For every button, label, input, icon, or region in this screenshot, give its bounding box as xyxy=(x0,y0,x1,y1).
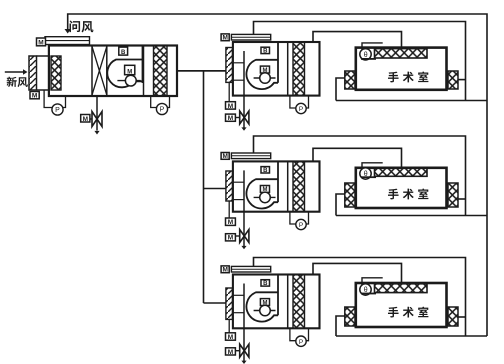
wire: under-room return duct (room 1) xyxy=(336,100,487,102)
wire: primary air into branch 1 xyxy=(177,70,226,72)
return grille right (room 2) xyxy=(448,183,458,207)
return damper strip (branch 2) xyxy=(231,153,270,159)
svg-text:M: M xyxy=(228,235,233,242)
fan control box B xyxy=(261,280,270,286)
dP gauge P (left filter) xyxy=(44,90,65,115)
svg-text:B: B xyxy=(263,281,268,287)
fan section wall xyxy=(277,275,279,316)
valve actuator M (branch 1) xyxy=(226,114,236,121)
wire: primary air into branch 2 xyxy=(204,188,226,190)
valve actuator M (branch 2) xyxy=(226,234,236,241)
humidifier valve (branch 3) xyxy=(240,344,249,357)
humidifier pipe (branch 2) xyxy=(243,170,245,246)
return grille right (room 3) xyxy=(448,307,458,326)
wire: supply duct branch 2 to room 2 xyxy=(313,148,402,168)
fan motor circle xyxy=(260,192,271,203)
fan motor circle xyxy=(260,73,271,84)
fan volute xyxy=(107,60,142,88)
svg-text:M: M xyxy=(222,267,227,274)
wire: under-room return duct (room 3) xyxy=(336,335,487,337)
svg-text:M: M xyxy=(222,35,227,42)
dP gauge P (right filter) xyxy=(151,96,170,115)
mixing damper (branch 3 left) xyxy=(226,288,233,319)
main AHU casing xyxy=(49,46,177,97)
wire: supply duct branch 1 to room 1 xyxy=(313,32,402,49)
humidifier pipe (branch 1) xyxy=(243,51,245,128)
wire: right grille connector (room 1) xyxy=(458,79,466,81)
wire: left return duct (room 3) xyxy=(336,316,345,336)
humidifier feed pipe xyxy=(96,96,98,131)
wire: main supply duct to branches xyxy=(177,70,226,72)
return grille right (room 1) xyxy=(448,71,458,89)
branch AHU 2 casing xyxy=(233,161,320,211)
svg-text:M: M xyxy=(228,349,233,356)
fan motor symbol xyxy=(254,310,276,312)
valve actuator M (main) xyxy=(81,115,90,123)
fan volute xyxy=(246,179,278,208)
fan motor symbol xyxy=(254,77,276,79)
svg-text:P: P xyxy=(299,339,303,346)
valve actuator M (branch 3) xyxy=(226,348,236,355)
svg-text:M: M xyxy=(228,219,233,226)
dP gauge P (branch 1) xyxy=(290,96,309,114)
return damper strip on top of main AHU xyxy=(45,37,90,45)
humidifier valve (branch 1) xyxy=(240,111,249,124)
svg-text:M: M xyxy=(222,153,227,160)
fresh air arrow xyxy=(5,71,25,73)
wire: right grille connector (room 2) xyxy=(458,198,466,200)
HEPA filter (branch 2) xyxy=(293,161,305,211)
sensor probe (room 1) xyxy=(360,43,383,60)
prefilter (main AHU left) xyxy=(51,56,61,90)
fan volute xyxy=(246,292,278,321)
fan section wall xyxy=(143,46,145,97)
svg-text:B: B xyxy=(263,48,268,54)
fan section wall xyxy=(142,46,144,84)
wire: recirculation duct room 3 to branch AHU 3 xyxy=(254,258,466,337)
partition before filter (branch 2) xyxy=(287,161,289,211)
label 手术室 (operating room 1) xyxy=(388,71,428,82)
wire: right grille connector (room 3) xyxy=(458,316,466,318)
fresh air damper xyxy=(29,56,37,90)
wire: recirculation duct room 1 to branch AHU 1 xyxy=(254,22,466,101)
fan motor box M xyxy=(125,65,135,74)
damper actuator M (branch 2 strip) xyxy=(221,153,229,160)
return damper strip (branch 3) xyxy=(231,266,270,272)
wire: left return duct (room 1) xyxy=(336,78,345,101)
sensor probe (room 3) xyxy=(360,278,383,295)
damper actuator M (return strip) xyxy=(37,38,46,46)
return grille left (room 2) xyxy=(345,183,355,207)
mixing damper (branch 2 left) xyxy=(226,171,233,201)
humidifier pipe (branch 3) xyxy=(243,284,245,362)
fan motor box M xyxy=(260,66,269,73)
ceiling HEPA diffuser (room 2) xyxy=(375,168,428,177)
heating/humidifier section X xyxy=(92,46,107,97)
svg-text:P: P xyxy=(160,107,165,114)
fan control box B xyxy=(261,167,270,173)
svg-text:M: M xyxy=(32,93,37,100)
label 手术室 (operating room 2) xyxy=(388,188,428,199)
operating room 2 xyxy=(356,168,447,208)
branch AHU 3 casing xyxy=(233,275,320,329)
damper actuator M (branch 3) xyxy=(226,333,236,340)
return air arrow into AHU xyxy=(65,29,71,34)
fan motor symbol xyxy=(254,196,276,198)
wire: main return duct top xyxy=(68,14,487,336)
wire: recirculation duct room 2 to branch AHU 2 xyxy=(254,136,466,216)
return grille left (room 1) xyxy=(345,71,355,89)
final filter (main AHU right) xyxy=(154,46,168,97)
fan section wall xyxy=(277,161,279,202)
dP gauge P (branch 2) xyxy=(290,212,309,230)
mixing damper (branch 1 left) xyxy=(226,48,233,83)
fan motor symbol xyxy=(117,80,140,82)
fan section wall xyxy=(277,42,279,83)
label 手术室 (operating room 3) xyxy=(388,307,428,318)
label 新风 (fresh air) xyxy=(7,77,28,87)
damper actuator M (branch 1 strip) xyxy=(221,34,229,41)
fan motor box M xyxy=(260,299,269,306)
label 回风 (return air) xyxy=(70,21,94,33)
svg-text:M: M xyxy=(38,40,43,47)
svg-text:M: M xyxy=(228,103,233,110)
fan volute xyxy=(246,60,278,89)
fan control box B xyxy=(261,47,270,53)
damper actuator M (fresh air) xyxy=(30,92,39,99)
svg-text:P: P xyxy=(299,106,303,113)
wire: primary air into branch 3 xyxy=(204,302,226,304)
svg-text:P: P xyxy=(55,107,60,114)
humidifier valve (branch 2) xyxy=(240,230,249,243)
fan motor box M xyxy=(260,186,269,193)
wire: supply duct branch 3 to room 3 xyxy=(313,263,402,283)
damper actuator M (branch 2) xyxy=(226,218,236,225)
partition before filter (branch 1) xyxy=(287,42,289,96)
wire: supply trunk vertical xyxy=(203,71,205,303)
svg-text:P: P xyxy=(299,222,303,229)
fan motor circle xyxy=(260,305,271,316)
operating room 1 xyxy=(356,48,447,90)
svg-text:M: M xyxy=(228,115,233,122)
fan control box B xyxy=(119,47,128,55)
branch AHU 1 casing xyxy=(233,42,320,96)
operating room 3 xyxy=(356,283,447,327)
wire: under-room return duct (room 2) xyxy=(336,215,487,217)
ceiling HEPA diffuser (room 1) xyxy=(375,49,428,58)
svg-text:M: M xyxy=(228,334,233,341)
return grille left (room 3) xyxy=(345,307,355,326)
svg-text:B: B xyxy=(121,50,126,56)
fresh air duct connection xyxy=(37,55,49,57)
HEPA filter (branch 3) xyxy=(293,275,305,329)
svg-text:θ: θ xyxy=(364,52,368,59)
damper actuator M (branch 1) xyxy=(226,102,236,109)
damper actuator M (branch 3 strip) xyxy=(221,266,229,273)
return damper strip (branch 1) xyxy=(231,34,270,40)
sensor probe (room 2) xyxy=(360,163,383,179)
ceiling HEPA diffuser (room 3) xyxy=(375,284,428,293)
humidifier valve (main) xyxy=(92,112,102,127)
HEPA filter (branch 1) xyxy=(293,42,305,96)
svg-text:M: M xyxy=(83,116,88,123)
partition before filter (branch 3) xyxy=(287,275,289,329)
fan motor circle xyxy=(125,75,136,86)
svg-text:B: B xyxy=(263,168,268,174)
wire: left return duct (room 2) xyxy=(336,194,345,216)
dP gauge P (branch 3) xyxy=(290,328,309,346)
